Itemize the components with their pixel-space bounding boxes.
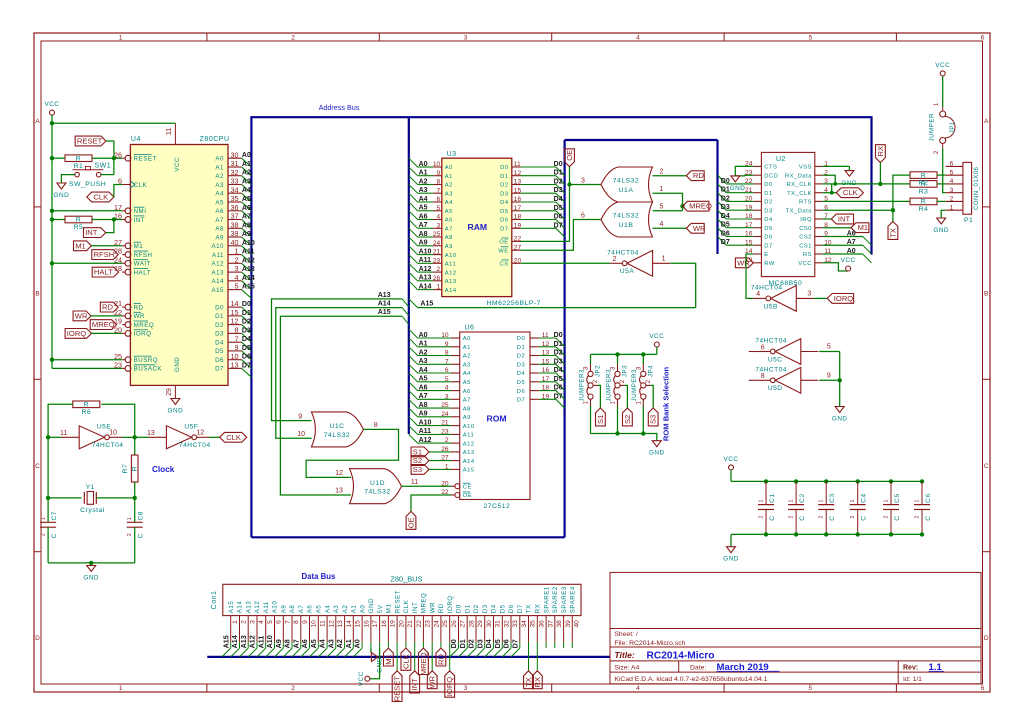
bus entry A5 (RAM): [409, 202, 418, 211]
resistor R4: [910, 198, 937, 205]
U4 pin 14 D0: [228, 306, 242, 308]
svg-text:U3: U3: [447, 151, 457, 158]
svg-text:A3: A3: [215, 182, 224, 189]
svg-text:39: 39: [565, 620, 572, 628]
bus entry D6 (Z80): [242, 360, 252, 369]
wire OE to U3 pin 22: [521, 240, 570, 242]
svg-text:D3: D3: [554, 187, 563, 194]
inverter U5B 74HCT04: [753, 297, 766, 299]
svg-text:D4: D4: [484, 639, 493, 648]
wire D6 (U2): [726, 236, 753, 238]
bus entry A5 (Con1): [310, 648, 319, 657]
svg-text:U5B: U5B: [764, 303, 778, 310]
wire U1B output to U3 WE: [521, 220, 601, 251]
wire RX_Data elbow: [823, 175, 910, 184]
svg-text:29: 29: [477, 620, 484, 628]
svg-text:E: E: [764, 252, 768, 258]
bus entry A12 (Z80): [242, 263, 252, 272]
svg-text:27C512: 27C512: [484, 503, 511, 510]
U4 pin 4 A14: [228, 280, 242, 282]
U4 pin 2 A12: [228, 262, 242, 264]
svg-text:1: 1: [127, 517, 133, 520]
svg-text:D6: D6: [502, 639, 511, 648]
U6 pin 6 A4: [418, 372, 451, 374]
junction crystal left: [46, 496, 50, 500]
bus entry A15 (to gates): [402, 316, 409, 324]
U2 pin 20 D2: [753, 200, 761, 202]
svg-text:Crystal: Crystal: [80, 507, 105, 514]
global label RD (Z80): [100, 302, 118, 312]
jumper JP1 JUMPER: [929, 102, 956, 154]
wire RX_CLK to TX_CLK: [831, 184, 833, 193]
junction INT node: [112, 217, 116, 221]
svg-text:OE: OE: [499, 240, 508, 246]
U4 pin 32 A2: [228, 175, 242, 177]
svg-text:3: 3: [249, 620, 256, 624]
svg-text:27: 27: [460, 620, 467, 628]
svg-text:3: 3: [437, 222, 441, 229]
svg-text:2: 2: [789, 516, 795, 519]
svg-text:GND: GND: [54, 192, 70, 199]
svg-text:S2: S2: [623, 415, 632, 424]
svg-text:KiCad E.D.A. kicad 4.0.7-e2-6: KiCad E.D.A. kicad 4.0.7-e2-637658ubuntu…: [614, 676, 767, 683]
svg-text:CLK: CLK: [226, 433, 241, 442]
svg-text:9: 9: [827, 373, 831, 380]
global label INT (U2 IRQ): [831, 214, 853, 224]
wire TX tag stem: [892, 210, 894, 221]
bus entry D5 (Con1): [494, 648, 503, 657]
U6 pin 16 D4: [530, 372, 539, 374]
bus Address Bus horizontal top: [251, 116, 871, 118]
junction at BUSRQ row: [50, 358, 54, 362]
bus entry A1 (Z80): [242, 167, 252, 176]
wire RX tag stem: [879, 163, 881, 184]
svg-text:D7: D7: [510, 639, 519, 648]
U2 pin 6 TX_Data: [815, 209, 823, 211]
svg-text:1: 1: [41, 517, 47, 520]
svg-text:10: 10: [109, 430, 117, 437]
wire SW1 right leg: [101, 174, 114, 176]
svg-text:D1: D1: [458, 639, 467, 648]
U1B input pin 5 wire from MREQ node: [653, 210, 683, 212]
svg-text:A11: A11: [463, 433, 474, 439]
wire BUSACK from rail: [52, 367, 122, 369]
bus entry D7 (Z80): [242, 368, 252, 377]
svg-text:D2: D2: [215, 322, 224, 329]
svg-text:A3: A3: [333, 605, 340, 614]
svg-text:24: 24: [433, 620, 440, 628]
U2 pin 11 RS: [815, 253, 823, 255]
junction C3 top: [824, 479, 828, 483]
svg-text:D: D: [35, 635, 40, 642]
svg-text:A13: A13: [211, 269, 224, 276]
bus horizontal data mid: [565, 139, 718, 141]
svg-text:5: 5: [808, 685, 812, 692]
svg-text:A12: A12: [445, 270, 457, 276]
wire A13 to U1C pin 9: [272, 299, 403, 421]
svg-text:GND: GND: [368, 598, 375, 613]
U3 pin 21 A10: [418, 254, 434, 256]
bus entry A8 (Z80): [242, 228, 252, 237]
bus entry A4 (Z80): [242, 193, 252, 202]
bus entry A13 (Z80): [242, 272, 252, 281]
svg-text:D7: D7: [764, 243, 772, 249]
svg-text:25: 25: [442, 620, 449, 628]
bus entry A12 (Con1): [248, 648, 257, 657]
U3 pin 4 A6: [418, 219, 434, 221]
wire RX_CLK row: [823, 183, 836, 185]
global label RFSH: [92, 250, 118, 260]
svg-text:RD: RD: [102, 303, 113, 312]
U3 pin 15 D3: [512, 192, 521, 194]
svg-text:A2: A2: [215, 173, 224, 180]
bus entry A2 (Con1): [336, 648, 345, 657]
svg-text:A3: A3: [326, 639, 335, 648]
svg-text:3: 3: [950, 187, 954, 194]
svg-text:VCC: VCC: [649, 333, 664, 340]
svg-text:A6: A6: [463, 389, 471, 395]
wire D1 (U2): [726, 192, 753, 194]
svg-text:10: 10: [433, 161, 441, 168]
U3 pin 9 A1: [418, 175, 434, 177]
bus entry D5 (U2): [718, 219, 727, 228]
bus entry A5 (ROM): [409, 373, 418, 382]
svg-text:A6: A6: [445, 218, 453, 224]
U2 pin 10 CS1: [815, 244, 823, 246]
U2 pin 24 CTS: [753, 165, 761, 167]
svg-text:A7: A7: [242, 214, 251, 221]
svg-text:IORQ: IORQ: [134, 331, 152, 338]
bus entry D7 (U2): [718, 237, 727, 246]
U2 pin 8 CS0: [815, 227, 823, 229]
svg-text:IORQ: IORQ: [447, 595, 454, 613]
svg-text:ROM Bank Selection: ROM Bank Selection: [662, 367, 671, 442]
junction jumper vcc 1: [615, 352, 619, 356]
global label CLK (U2 TX_CLK): [836, 188, 863, 198]
svg-text:RX: RX: [533, 677, 542, 688]
svg-text:C3: C3: [829, 493, 836, 502]
svg-text:5: 5: [235, 282, 239, 291]
bus entry D2 (Con1): [467, 648, 476, 657]
svg-text:RESET: RESET: [77, 137, 103, 146]
bus entry A6 (ROM): [409, 382, 418, 391]
svg-text:35: 35: [530, 620, 537, 628]
wire JP3 pin 2 to S2: [620, 384, 624, 386]
wire R2 to P1 pin 5: [937, 174, 946, 176]
svg-text:CS2: CS2: [799, 235, 812, 241]
svg-text:10: 10: [441, 332, 449, 339]
svg-text:4: 4: [660, 221, 664, 228]
svg-text:Con1: Con1: [211, 591, 218, 610]
global label IORQ (Con1 pin 26): [445, 671, 455, 697]
svg-text:11: 11: [60, 430, 67, 437]
wire D7 (RAM): [521, 227, 556, 229]
bus entry A10 (Z80): [242, 246, 252, 255]
svg-text:S3: S3: [413, 465, 422, 474]
or-gate U1B 74LS32: [601, 202, 653, 237]
wire U5B input to IORQ: [814, 297, 827, 299]
crystal Y1: [48, 484, 135, 514]
svg-text:A15: A15: [211, 287, 224, 294]
bus entry A6: [863, 237, 872, 246]
svg-text:A8: A8: [463, 406, 471, 412]
svg-text:M1: M1: [75, 241, 86, 250]
junction C6 top: [920, 479, 924, 483]
svg-text:D2: D2: [764, 200, 772, 206]
svg-text:WAIT: WAIT: [134, 261, 151, 268]
global label WR (U2 RW): [735, 258, 753, 268]
power VCC (decoupling): [724, 456, 739, 482]
svg-text:6: 6: [581, 212, 585, 219]
svg-text:3: 3: [464, 685, 468, 692]
svg-text:CTS: CTS: [764, 165, 777, 171]
bus entry A4 (ROM): [409, 364, 418, 373]
svg-text:5: 5: [950, 169, 954, 176]
U4 pin 15 D1: [228, 315, 242, 317]
svg-text:74LS32: 74LS32: [613, 178, 639, 185]
bus entry D3 (Z80): [242, 333, 252, 342]
svg-text:A9: A9: [463, 415, 471, 421]
svg-text:D6: D6: [764, 235, 772, 241]
svg-text:VCC: VCC: [358, 671, 365, 686]
svg-text:19: 19: [114, 317, 122, 326]
svg-text:A15: A15: [228, 601, 235, 614]
svg-text:C7: C7: [51, 511, 58, 520]
wire WR to pin 22: [91, 315, 122, 317]
junction C4 top: [856, 479, 860, 483]
svg-text:26: 26: [433, 275, 441, 282]
bus entry D4 (Z80): [242, 342, 252, 351]
svg-text:4: 4: [445, 385, 449, 392]
global label HALT: [92, 267, 118, 277]
svg-text:WE: WE: [498, 248, 508, 254]
svg-text:D7: D7: [242, 362, 251, 369]
svg-text:A15: A15: [463, 468, 475, 474]
resistor R3: [910, 181, 937, 188]
svg-text:Z80CPU: Z80CPU: [200, 136, 230, 143]
U2 pin 2 RX_Data: [815, 174, 823, 176]
svg-text:33: 33: [512, 620, 519, 628]
svg-text:1: 1: [437, 284, 441, 291]
svg-text:3: 3: [807, 291, 811, 298]
bus entry A8 (Con1): [283, 648, 292, 657]
svg-text:RFSH: RFSH: [94, 250, 115, 259]
svg-text:A1: A1: [215, 164, 224, 171]
bus entry D7 (Con1): [511, 648, 520, 657]
svg-text:4: 4: [756, 291, 760, 298]
junction U5E out node: [133, 435, 137, 439]
junction clock gnd: [89, 561, 93, 565]
svg-text:A5: A5: [316, 605, 323, 614]
bus entry A12 (ROM): [409, 434, 418, 443]
wire JP4 pin 2 to S3: [646, 384, 650, 386]
svg-text:Sheet: /: Sheet: /: [614, 631, 638, 638]
U4 pin 3 A13: [228, 271, 242, 273]
wire TX_CLK stub to CLK tag: [823, 192, 837, 194]
bus entry D0 (ROM): [556, 338, 565, 347]
global label INT (Con1 pin 22): [410, 671, 420, 693]
svg-text:Z80_BUS: Z80_BUS: [390, 575, 422, 584]
U6 pin 10 A0: [418, 337, 451, 339]
U4 pin 20 IORQ: [122, 332, 125, 334]
svg-text:31: 31: [231, 159, 239, 168]
junction at INT row: [50, 217, 54, 221]
bus entry D2 (ROM): [556, 356, 565, 365]
svg-text:D: D: [984, 635, 989, 642]
U1A input pin 2 wire to RD: [653, 175, 687, 177]
svg-text:R5: R5: [74, 224, 84, 231]
svg-text:A5: A5: [463, 380, 471, 386]
bus entry A14 (Con1): [231, 648, 240, 657]
svg-text:D5: D5: [721, 222, 730, 229]
bus entry A11 (RAM): [409, 255, 418, 264]
svg-text:File: RC2014-Micro.sch: File: RC2014-Micro.sch: [614, 640, 685, 647]
svg-text:1: 1: [119, 35, 123, 42]
svg-text:BUSRQ: BUSRQ: [134, 357, 159, 364]
svg-text:D0: D0: [554, 332, 563, 339]
svg-text:2: 2: [127, 533, 133, 536]
svg-text:74LS32: 74LS32: [613, 213, 639, 220]
svg-text:A9: A9: [445, 244, 453, 250]
svg-text:26: 26: [441, 446, 449, 453]
svg-text:33: 33: [231, 177, 239, 186]
svg-text:SPARE3: SPARE3: [561, 586, 568, 613]
svg-text:R: R: [76, 155, 81, 162]
svg-text:C: C: [35, 463, 40, 470]
svg-text:8: 8: [293, 620, 300, 624]
svg-text:15: 15: [355, 620, 362, 628]
svg-text:U5D: U5D: [768, 385, 783, 392]
svg-text:7: 7: [235, 334, 239, 343]
bus entry A1 (ROM): [409, 338, 418, 347]
bus entry A1 (Con1): [345, 648, 354, 657]
bus entry D1 (Z80): [242, 316, 252, 325]
svg-text:3: 3: [581, 177, 585, 184]
bus entry A11 (Z80): [242, 255, 252, 264]
wire D5 (RAM): [521, 210, 556, 212]
bus entry D3 (U2): [718, 201, 727, 210]
svg-text:RX_CLK: RX_CLK: [786, 182, 812, 188]
U3 pin 25 A8: [418, 236, 434, 238]
svg-text:GND: GND: [168, 407, 184, 414]
U4 pin 36 A6: [228, 210, 242, 212]
P1 pin 6: [946, 165, 963, 167]
svg-text:C2: C2: [799, 493, 806, 502]
svg-text:A11: A11: [263, 601, 270, 613]
svg-text:C: C: [861, 515, 868, 520]
svg-text:A0: A0: [359, 605, 366, 614]
wire U2 E to U5B: [746, 254, 753, 298]
U6 pin 22 OE: [441, 489, 472, 499]
svg-text:A15: A15: [242, 284, 255, 291]
svg-text:10: 10: [231, 352, 239, 361]
svg-text:A14: A14: [445, 288, 457, 294]
U4 pin 5 A15: [228, 289, 242, 291]
junction C2 bottom: [794, 532, 798, 536]
U6 pin 8 A2: [418, 355, 451, 357]
svg-text:36: 36: [231, 203, 239, 212]
svg-text:MREQ: MREQ: [419, 652, 428, 675]
svg-text:Y1: Y1: [86, 484, 95, 491]
inverter U5F 74HCT04: [149, 436, 167, 438]
svg-text:A8: A8: [215, 226, 224, 233]
svg-text:RFSH: RFSH: [134, 252, 153, 259]
svg-text:VCC: VCC: [724, 456, 739, 463]
svg-text:D5: D5: [242, 345, 251, 352]
U6 pin 5 A5: [418, 381, 451, 383]
U2 pin 23 DCD: [753, 174, 761, 176]
bus entry D4 (ROM): [556, 373, 565, 382]
svg-text:CS0: CS0: [799, 226, 812, 232]
bus entry A4 (Con1): [318, 648, 327, 657]
global label OE vertical (ROM): [406, 511, 416, 529]
bus entry D5 (Z80): [242, 351, 252, 360]
svg-text:Size: A4: Size: A4: [614, 665, 639, 672]
svg-text:A4: A4: [242, 187, 251, 194]
svg-text:2: 2: [445, 437, 449, 444]
wire D2 (U2): [726, 200, 753, 202]
svg-text:D2: D2: [554, 350, 563, 357]
jumper JP3 JUMPER3: [605, 354, 628, 433]
svg-text:1: 1: [819, 500, 825, 503]
svg-text:RTS: RTS: [799, 200, 812, 206]
bus entry D1 (U2): [718, 184, 727, 193]
svg-text:A5: A5: [215, 199, 224, 206]
bus entry A3 (Z80): [242, 185, 252, 194]
wire BUSRQ from rail: [52, 359, 122, 361]
inverter U5E 74HCT04: [62, 436, 79, 438]
svg-text:2: 2: [819, 516, 825, 519]
svg-text:R2: R2: [919, 180, 929, 187]
svg-text:D3: D3: [475, 639, 484, 648]
svg-text:1: 1: [884, 500, 890, 503]
U2 pin 12 VCC: [815, 262, 823, 264]
bus entry A7 (Con1): [292, 648, 301, 657]
wire node to U5F input: [135, 436, 149, 438]
U3 pin 8 A2: [418, 184, 434, 186]
svg-text:TX_CLK: TX_CLK: [787, 191, 812, 197]
bus entry A0 (U2): [863, 254, 872, 263]
svg-text:D1: D1: [517, 345, 525, 351]
bus entry D4 (Con1): [485, 648, 494, 657]
bus entry A1 (RAM): [409, 167, 418, 176]
svg-text:Data Bus: Data Bus: [302, 572, 336, 581]
U3 pin 16 D4: [512, 201, 521, 203]
U4 pin 21 RD: [122, 306, 125, 308]
U6 pin 17 D5: [530, 381, 539, 383]
svg-text:GND: GND: [723, 556, 739, 563]
svg-text:A0: A0: [847, 248, 856, 255]
svg-text:A7: A7: [463, 398, 471, 404]
svg-text:A5: A5: [309, 639, 318, 648]
svg-text:1: 1: [660, 186, 664, 193]
bus entry D2 (U2): [718, 193, 727, 202]
bus entry A3 (ROM): [409, 356, 418, 365]
svg-text:D3: D3: [215, 331, 224, 338]
svg-text:R7: R7: [122, 464, 129, 474]
svg-text:MREQ: MREQ: [421, 593, 428, 614]
svg-text:A11: A11: [445, 262, 456, 268]
bus entry A9 (Con1): [275, 648, 284, 657]
U2 RS wire to bus: [823, 253, 863, 255]
svg-text:A13: A13: [463, 450, 475, 456]
power VCC (jumpers): [649, 333, 664, 354]
svg-text:A1: A1: [445, 174, 453, 180]
svg-text:RC2014-Micro: RC2014-Micro: [647, 650, 715, 661]
svg-text:A4: A4: [445, 200, 453, 206]
junction MREQ node: [680, 204, 684, 208]
wire D3 (U2): [726, 209, 753, 211]
